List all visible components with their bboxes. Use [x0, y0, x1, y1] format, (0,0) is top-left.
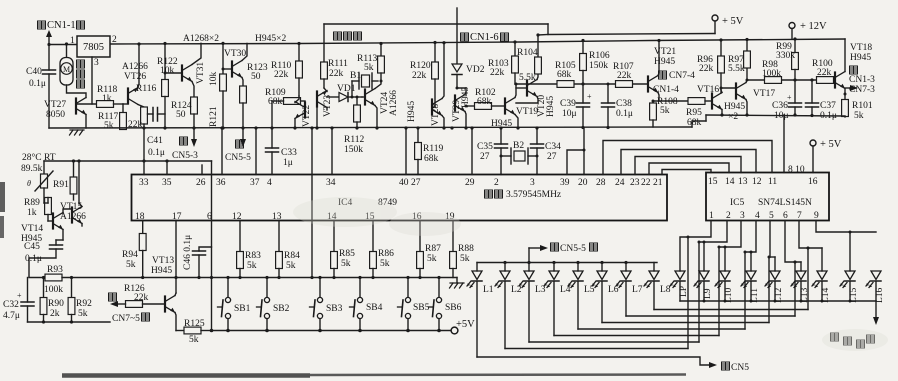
transistor VT27 — [44, 85, 86, 128]
svg-text:0.1μ: 0.1μ — [148, 148, 165, 158]
svg-text:0.1μ: 0.1μ — [29, 79, 46, 89]
svg-text:A1266: A1266 — [389, 90, 399, 116]
resistor R100 — [812, 59, 834, 83]
wire LED cathode rail right — [680, 300, 876, 303]
transistor VT23 — [317, 88, 333, 128]
svg-text:5k: 5k — [104, 121, 114, 131]
ground at rail end — [450, 278, 465, 289]
svg-text:×2: ×2 — [728, 112, 738, 122]
svg-text:SB6: SB6 — [445, 303, 462, 313]
svg-text:1k: 1k — [27, 208, 37, 218]
svg-text:CN1-1: CN1-1 — [47, 20, 76, 31]
IC5 bottom pin numbers — [709, 211, 819, 221]
LED L16 — [866, 271, 885, 303]
svg-text:26: 26 — [196, 178, 206, 188]
capacitor C40 — [26, 67, 56, 89]
svg-text:C33: C33 — [281, 148, 297, 158]
wire buzzer rail — [324, 24, 715, 62]
resistor R96 — [697, 38, 724, 93]
wire IC5 pin9 jog — [816, 221, 876, 272]
svg-text:SB3: SB3 — [326, 304, 343, 314]
svg-text:IC5: IC5 — [730, 198, 745, 208]
resistor R123 — [240, 63, 268, 142]
diode VD2 — [452, 64, 485, 88]
svg-text:SB5: SB5 — [413, 303, 430, 313]
svg-text:22k: 22k — [329, 69, 344, 79]
wire 7805 pin3 — [76, 57, 97, 104]
resistor R109 — [265, 88, 305, 128]
resistor R104 — [517, 33, 541, 83]
wire top rail — [49, 39, 845, 45]
svg-text:22: 22 — [641, 178, 651, 188]
LED L1 — [467, 263, 494, 358]
svg-text:13: 13 — [738, 177, 748, 187]
LED LP — [670, 271, 689, 301]
svg-text:VT23: VT23 — [323, 95, 333, 117]
wire pin26 column — [201, 165, 203, 175]
LED L7 — [616, 263, 643, 317]
capacitor C33 on pin4 — [266, 128, 298, 175]
resistor R102 — [466, 88, 512, 129]
svg-text:A1268×2: A1268×2 — [183, 34, 219, 44]
node A1268x2 label — [183, 34, 219, 44]
IC4 crystal label — [485, 190, 562, 200]
svg-text:22k: 22k — [134, 293, 149, 303]
svg-text:R116: R116 — [136, 84, 156, 94]
svg-text:C38: C38 — [616, 99, 632, 109]
svg-text:8050: 8050 — [46, 110, 65, 120]
ground under VT27 — [70, 130, 85, 135]
svg-text:H945: H945 — [546, 96, 556, 117]
wire common rail y128 — [49, 126, 692, 130]
transistor VT21 — [648, 39, 688, 101]
thermistor RT — [21, 152, 56, 203]
svg-text:CN1-4: CN1-4 — [653, 85, 679, 95]
wire IC5 pin2 jog — [699, 221, 727, 272]
svg-text:C36: C36 — [772, 101, 788, 111]
LED L13 — [791, 271, 810, 303]
svg-text:+ 5V: + 5V — [820, 139, 842, 150]
svg-text:C34: C34 — [545, 142, 561, 152]
transistor VT19 — [505, 84, 538, 128]
svg-text:4.7μ: 4.7μ — [3, 311, 20, 321]
resistor R124 — [171, 82, 197, 143]
svg-text:CN5-3: CN5-3 — [172, 151, 198, 161]
transistor VT26 — [122, 42, 148, 107]
svg-text:R88: R88 — [458, 244, 474, 254]
svg-text:R90: R90 — [48, 299, 64, 309]
svg-text:50: 50 — [251, 72, 261, 82]
wire nest line L7 — [626, 261, 797, 317]
svg-text:CN5: CN5 — [731, 363, 749, 373]
wire left rail y161 — [44, 159, 212, 162]
IC4 top pin numbers — [139, 178, 663, 188]
svg-text:VT22: VT22 — [302, 105, 312, 127]
svg-text:CN5-5: CN5-5 — [225, 153, 251, 163]
svg-text:14: 14 — [725, 177, 735, 187]
LED L4 — [544, 263, 571, 336]
svg-text:1: 1 — [709, 211, 714, 221]
node CN label bottom right — [831, 333, 875, 348]
svg-text:R94: R94 — [122, 250, 138, 260]
svg-text:33: 33 — [139, 178, 149, 188]
svg-text:H945: H945 — [407, 101, 417, 122]
svg-text:R119: R119 — [423, 144, 443, 154]
node CN1-1 feed label — [38, 20, 85, 31]
resistor R110 — [271, 42, 302, 96]
svg-text:SB1: SB1 — [234, 304, 251, 314]
svg-text:R104: R104 — [517, 48, 538, 58]
LED L8 — [644, 263, 671, 310]
wire pin33 column — [143, 128, 145, 175]
resistor R118 — [97, 85, 124, 107]
svg-text:5: 5 — [769, 211, 774, 221]
wire mid column x211 through IC4 — [210, 161, 214, 332]
svg-text:40: 40 — [399, 178, 409, 188]
switch SB3 — [310, 276, 343, 331]
transistor VT30 — [222, 43, 248, 77]
svg-text:VT18: VT18 — [850, 43, 872, 53]
resistor R105 — [555, 61, 576, 87]
wire LED anode rail — [477, 261, 657, 264]
svg-text:VD2: VD2 — [466, 65, 485, 75]
resistor R87 — [417, 221, 441, 278]
resistor R117 — [98, 104, 126, 131]
svg-text:LP: LP — [679, 286, 689, 297]
svg-text:R111: R111 — [328, 59, 348, 69]
svg-text:A1266: A1266 — [122, 62, 148, 72]
wire pin36 column — [220, 126, 223, 174]
node CN7-5 label — [109, 293, 150, 324]
svg-text:2: 2 — [494, 178, 499, 188]
wire CN1-6 drop — [457, 8, 509, 64]
wire ground rail bottom-left — [28, 320, 111, 323]
svg-text:5k: 5k — [854, 111, 864, 121]
resistor R126 — [110, 284, 165, 307]
svg-text:27: 27 — [480, 152, 490, 162]
wire nest line L4 — [554, 246, 721, 336]
resistor R106 — [580, 39, 610, 84]
svg-text:R87: R87 — [425, 244, 441, 254]
svg-text:5k: 5k — [460, 254, 470, 264]
svg-text:68k: 68k — [557, 70, 572, 80]
svg-text:5k: 5k — [126, 260, 136, 270]
LED L3 — [519, 263, 546, 343]
node H945x2 label — [255, 34, 286, 44]
svg-text:22k: 22k — [817, 68, 832, 78]
svg-text:22k: 22k — [617, 71, 632, 81]
svg-text:89.5k: 89.5k — [21, 164, 43, 174]
wire pin40 column — [404, 126, 407, 174]
svg-text:H945: H945 — [151, 266, 172, 276]
LED L6 — [592, 263, 619, 323]
resistor R97 — [728, 38, 750, 74]
svg-text:5k: 5k — [78, 309, 88, 319]
node CN1-3 out arrow — [845, 66, 875, 95]
wire CN1-1 drop with arrow — [46, 30, 52, 128]
svg-text:5k: 5k — [341, 259, 351, 269]
transistor VT31 — [164, 43, 207, 84]
resistor R125 — [176, 319, 212, 345]
svg-text:20: 20 — [578, 178, 588, 188]
transistor VT22 — [295, 96, 312, 128]
svg-text:A1266: A1266 — [60, 212, 86, 222]
svg-text:1k: 1k — [102, 94, 112, 104]
wire IC5 pin5 jog — [769, 221, 775, 272]
svg-text:100k: 100k — [44, 285, 63, 295]
svg-text:21: 21 — [653, 178, 663, 188]
svg-text:1μ: 1μ — [283, 158, 293, 168]
svg-text:22k: 22k — [490, 68, 505, 78]
switch SB6 — [429, 276, 462, 331]
svg-text:34: 34 — [326, 178, 336, 188]
wire nest line L1 to CN5 — [477, 357, 717, 368]
svg-text:VT28: VT28 — [431, 104, 441, 126]
wire nest pin24 to 12 — [621, 150, 756, 175]
svg-text:R125: R125 — [184, 319, 205, 329]
svg-text:+: + — [17, 291, 22, 300]
svg-text:330k: 330k — [776, 51, 795, 61]
svg-text:6: 6 — [783, 211, 788, 221]
wire R104 top link — [538, 34, 548, 37]
svg-text:7805: 7805 — [83, 42, 104, 53]
capacitor C41 — [147, 108, 165, 159]
resistor R91 — [53, 161, 77, 200]
wire bottom rail with +5V — [212, 319, 476, 334]
wire IC5 pin6 jog — [785, 221, 801, 272]
svg-text:R112: R112 — [344, 135, 364, 145]
svg-text:4: 4 — [755, 211, 760, 221]
svg-text:5.5k: 5.5k — [519, 73, 536, 83]
wire emitter rail right y115 — [692, 113, 845, 127]
resistor R107 — [613, 62, 634, 87]
svg-text:R86: R86 — [378, 249, 394, 259]
power +5V top — [712, 15, 744, 34]
resistor R89 — [24, 198, 51, 222]
svg-text:L4: L4 — [560, 285, 571, 295]
svg-text:VT14: VT14 — [21, 224, 43, 234]
svg-text:VT19: VT19 — [516, 107, 538, 117]
resistor R98 — [762, 60, 782, 83]
svg-text:H945: H945 — [724, 102, 745, 112]
wire pin35 column — [166, 161, 168, 175]
wire base rail right y80 — [746, 78, 836, 81]
svg-text:VT31: VT31 — [196, 62, 206, 84]
svg-text:L6: L6 — [608, 285, 619, 295]
svg-text:27: 27 — [547, 152, 557, 162]
svg-text:C40: C40 — [26, 67, 42, 77]
wire pin29 column — [470, 126, 473, 174]
capacitor C39 — [560, 84, 592, 128]
svg-text:15: 15 — [708, 177, 718, 187]
svg-text:5.5k: 5.5k — [728, 64, 745, 74]
power +5V at IC5 — [810, 139, 842, 173]
resistor R90 — [40, 276, 64, 322]
capacitor C35 — [477, 126, 508, 174]
resistor R84 — [276, 221, 300, 278]
IC U4 box — [132, 175, 668, 221]
node CN5-5 in arrow — [529, 243, 598, 263]
switch SB5 — [398, 276, 430, 331]
svg-text:C41: C41 — [147, 136, 163, 146]
svg-text:+ 5V: + 5V — [722, 16, 744, 27]
switch SB2 — [257, 276, 290, 331]
LED L10 — [715, 271, 734, 303]
transistor VT20 — [516, 74, 556, 117]
svg-text:35: 35 — [162, 178, 172, 188]
capacitor C34 — [531, 126, 562, 174]
wire IC5 pin4 jog — [745, 221, 756, 272]
svg-text:28°C RT: 28°C RT — [22, 152, 56, 163]
diode VD1 — [327, 84, 362, 102]
wire nest line L5 — [578, 251, 747, 330]
svg-text:68k: 68k — [424, 154, 439, 164]
svg-text:4: 4 — [267, 178, 272, 188]
svg-text:17: 17 — [172, 212, 182, 222]
svg-text:L7: L7 — [632, 285, 643, 295]
svg-text:22k: 22k — [274, 70, 289, 80]
svg-text:5k: 5k — [286, 261, 296, 271]
svg-text:H945: H945 — [461, 87, 471, 108]
resistor R85 — [331, 221, 355, 278]
svg-text:C35: C35 — [477, 142, 493, 152]
svg-text:R106: R106 — [589, 51, 610, 61]
svg-text:SB2: SB2 — [273, 304, 290, 314]
svg-text:SN74LS145N: SN74LS145N — [758, 198, 812, 208]
svg-text:3: 3 — [94, 58, 99, 68]
capacitor C38 — [602, 83, 633, 128]
LED L9 — [694, 271, 713, 301]
wire pin37 column — [254, 126, 257, 174]
wire long drop column x312 — [310, 126, 313, 279]
svg-text:R83: R83 — [245, 251, 261, 261]
svg-text:3: 3 — [530, 178, 535, 188]
svg-text:C39: C39 — [560, 99, 576, 109]
svg-text:10k: 10k — [160, 66, 175, 76]
svg-text:50: 50 — [176, 110, 186, 120]
svg-text:150k: 150k — [344, 145, 363, 155]
svg-text:L8: L8 — [660, 285, 671, 295]
wire nest line L8 — [654, 247, 810, 310]
transistor VT17 — [721, 68, 775, 115]
transistor VT28 — [407, 41, 446, 130]
svg-text:100k: 100k — [762, 69, 781, 79]
LED L12 — [765, 271, 784, 303]
LED L15 — [840, 271, 859, 303]
svg-text:CN7~5: CN7~5 — [112, 314, 140, 324]
svg-text:2k: 2k — [50, 309, 60, 319]
wire base rail y84 — [515, 82, 649, 85]
svg-text:CN7-4: CN7-4 — [669, 71, 695, 81]
capacitor C32 — [3, 278, 34, 323]
svg-text:7: 7 — [797, 211, 802, 221]
wire mid rail y277 right part — [212, 276, 457, 279]
svg-text:C45: C45 — [24, 242, 40, 252]
svg-text:R121: R121 — [209, 106, 219, 127]
wire pin34 column — [331, 128, 333, 175]
svg-text:R95: R95 — [686, 108, 702, 118]
LED L2 — [495, 263, 522, 349]
wire CN output arrow bottom right — [873, 301, 879, 325]
power +12V — [789, 21, 827, 39]
svg-text:L1: L1 — [483, 285, 494, 295]
svg-text:R92: R92 — [76, 299, 92, 309]
wire nest pin21 to 15 — [662, 170, 711, 175]
svg-text:13: 13 — [272, 212, 282, 222]
svg-text:R101: R101 — [852, 101, 873, 111]
svg-text:C46 0.1μ: C46 0.1μ — [183, 235, 193, 270]
switch SB4 — [350, 276, 383, 331]
transistor VT29 — [452, 87, 471, 129]
resistor R93 — [29, 265, 212, 295]
svg-text:5k: 5k — [380, 259, 390, 269]
resistor R112 — [344, 96, 364, 156]
svg-text:5k: 5k — [247, 261, 257, 271]
svg-text:3.579545MHz: 3.579545MHz — [506, 190, 561, 200]
svg-text:VT30: VT30 — [224, 49, 246, 59]
svg-text:H945: H945 — [850, 53, 871, 63]
buzzer label — [334, 32, 362, 40]
svg-text:L5: L5 — [584, 285, 595, 295]
resistor R121 — [209, 42, 226, 128]
wire IC5 pin1 jog — [680, 221, 711, 272]
svg-text:10μ: 10μ — [562, 109, 577, 119]
svg-text:0.1μ: 0.1μ — [25, 254, 42, 264]
svg-text:28: 28 — [596, 178, 606, 188]
svg-text:5k: 5k — [364, 63, 374, 73]
IC U5 box — [706, 173, 829, 221]
svg-text:2: 2 — [112, 35, 117, 45]
switch SB1 — [218, 276, 251, 331]
resistor R111 — [321, 59, 349, 88]
resistor R86 — [370, 221, 394, 278]
resistor R120 — [410, 41, 438, 107]
svg-text:CN5-5: CN5-5 — [560, 244, 586, 254]
node CN7-4 label — [653, 71, 695, 95]
resistor R119 — [415, 126, 444, 174]
svg-text:10k: 10k — [209, 72, 219, 87]
capacitor C37 — [806, 80, 837, 121]
svg-text:L9: L9 — [703, 288, 713, 299]
wire nest line L6 — [602, 256, 771, 323]
wire nest line L2 — [505, 236, 690, 349]
transistor VT16 — [697, 85, 745, 122]
transistor VT14 — [21, 209, 72, 244]
svg-text:VT17: VT17 — [753, 89, 775, 99]
svg-text:11: 11 — [768, 177, 777, 187]
regulator 7805 — [70, 35, 117, 68]
svg-text:θ: θ — [27, 179, 31, 188]
buzzer B1 — [350, 71, 378, 99]
svg-text:C32: C32 — [3, 300, 19, 310]
svg-text:R93: R93 — [47, 265, 63, 275]
svg-text:12: 12 — [752, 177, 762, 187]
resistor R83 — [237, 221, 261, 278]
svg-text:M: M — [63, 65, 70, 74]
svg-text:22k: 22k — [412, 71, 427, 81]
svg-text:H945: H945 — [654, 57, 675, 67]
svg-text:SB4: SB4 — [366, 303, 383, 313]
LED L5 — [568, 263, 595, 330]
svg-text:VT13: VT13 — [152, 256, 174, 266]
scan artifacts — [0, 182, 686, 376]
svg-text:B2: B2 — [513, 141, 524, 151]
svg-text:R91: R91 — [53, 180, 69, 190]
svg-text:VT27: VT27 — [44, 100, 66, 110]
svg-text:VT16: VT16 — [697, 85, 719, 95]
capacitor C36 — [772, 80, 802, 121]
svg-text:CN1-6: CN1-6 — [470, 32, 499, 43]
